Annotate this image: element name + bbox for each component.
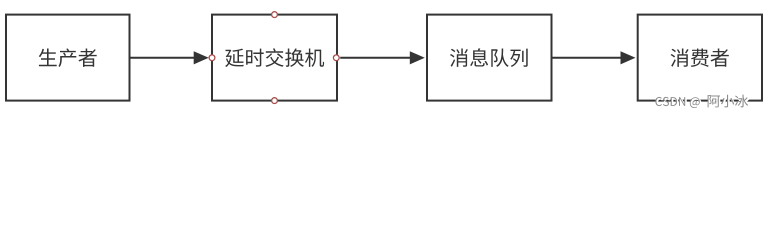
wire arrow A2: B2 right connection point to B3: [340, 57, 411, 59]
box B1 生产者 (producer): [6, 15, 130, 101]
wire arrow A3: B3 right edge to B4: [553, 57, 623, 59]
wire arrow A1: B1 right edge to B2 left connection point: [131, 57, 196, 59]
box B4 消费者 (consumer): [638, 15, 762, 101]
connection point circle: B2 bottom mid: [272, 98, 278, 104]
label 消息队列: [450, 48, 528, 67]
watermark CSDN @阿小冰 gray text layer: [655, 95, 748, 108]
label 生产者: [39, 49, 97, 68]
label 消费者: [671, 49, 729, 67]
watermark CSDN @阿小冰 white shadow layer: [656, 96, 749, 109]
box B2 延时交换机 (delay exchange): [212, 15, 337, 101]
connection point circle: B2 right mid: [333, 55, 339, 61]
label 延时交换机: [225, 48, 324, 67]
connection point circle: B2 top mid: [272, 12, 278, 18]
box B3 消息队列 (message queue): [427, 15, 552, 101]
connection point circle: B2 left mid: [209, 55, 215, 61]
